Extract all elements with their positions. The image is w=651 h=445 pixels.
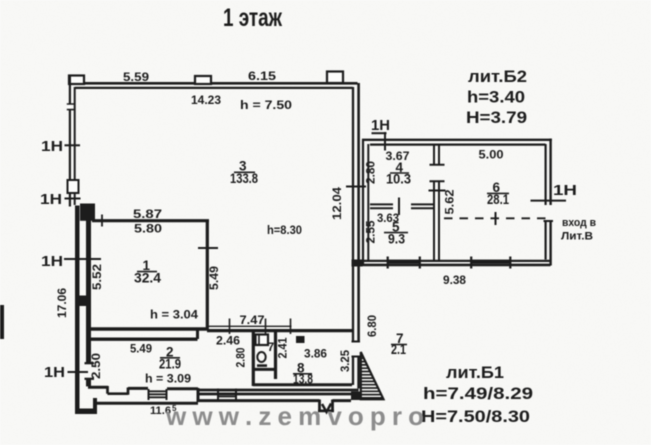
wall: wing bottom room2 floor c [167, 387, 198, 390]
wall: main right outer upper [357, 83, 360, 341]
svg-text:h=8.30: h=8.30 [267, 223, 302, 237]
dim tick c [290, 319, 292, 335]
left foot bottom [75, 409, 97, 415]
wall: annex bottom outer [353, 264, 551, 267]
svg-text:6.15: 6.15 [248, 69, 276, 83]
svg-text:28.1: 28.1 [487, 192, 509, 207]
svg-text:H=7.50/8.30: H=7.50/8.30 [421, 408, 530, 426]
svg-text:32.4: 32.4 [134, 271, 161, 286]
wall: main right inner lower [352, 357, 354, 385]
wall: wing bottom room2 floor b [128, 387, 148, 390]
wall: room8 floor [253, 383, 352, 386]
wall: left upper inner [74, 87, 76, 205]
wall: toilet bottom [253, 368, 276, 371]
svg-text:h=3.40: h=3.40 [467, 89, 525, 107]
svg-text:133.8: 133.8 [230, 171, 258, 186]
svg-text:9.3: 9.3 [388, 232, 405, 247]
fixture: sink [256, 335, 269, 346]
wall: left lower inner below window [86, 378, 91, 386]
dim tick b [265, 319, 267, 335]
svg-text:h = 7.50: h = 7.50 [240, 98, 292, 112]
dashed line room 6 [444, 217, 550, 219]
wall: left lower outer (thick) [75, 206, 80, 412]
wall: left lower inner upper segment [86, 219, 91, 364]
window annex 2 [472, 260, 511, 262]
stairs hatching [361, 355, 383, 398]
tick left wall 1 [65, 144, 81, 146]
svg-text:5.52: 5.52 [90, 264, 104, 290]
wall: annex left inner [367, 144, 369, 260]
stub upper of left-wall window [85, 362, 95, 364]
wall: room1 top [92, 219, 209, 222]
svg-text:h = 3.09: h = 3.09 [145, 372, 191, 386]
wall: toilet left [252, 332, 255, 386]
svg-text:1Н: 1Н [371, 117, 390, 134]
wall: main right inner upper [352, 87, 354, 341]
window annex 1 [388, 260, 420, 262]
svg-text:9.38: 9.38 [443, 273, 466, 287]
svg-text:2.80: 2.80 [364, 161, 378, 184]
wall: annex divider 4/5 bottom line [370, 207, 435, 209]
svg-text:2.41: 2.41 [276, 337, 290, 358]
svg-text:2.1: 2.1 [391, 342, 406, 357]
svg-text:вход в: вход в [562, 217, 596, 229]
wall: room1 bottom [90, 327, 209, 330]
svg-text:H=3.79: H=3.79 [466, 109, 527, 127]
svg-text:5.49: 5.49 [130, 342, 152, 356]
svg-text:5.87: 5.87 [133, 207, 162, 221]
title: 1 этаж [223, 4, 282, 32]
svg-text:w w w . z e m v o p r o: w w w . z e m v o p r o [165, 401, 424, 431]
tick room1 right wall [198, 247, 218, 249]
svg-text:5.80: 5.80 [134, 222, 162, 236]
plus tick on dashed line [495, 212, 497, 225]
svg-text:h = 3.04: h = 3.04 [150, 308, 198, 322]
stub divider 4/5 door [398, 198, 400, 216]
svg-text:10.3: 10.3 [386, 172, 411, 187]
tick 5.87 dim start [101, 215, 103, 227]
tick right wall y131 [372, 132, 387, 134]
wall: toilet right [274, 329, 277, 379]
wall: annex left outer [362, 139, 364, 265]
stub lower of left-wall window [85, 378, 95, 380]
wall: wing bottom notch [108, 386, 129, 395]
wall: annex top inner [370, 144, 546, 146]
tick left wall 2 [65, 198, 81, 200]
wall: wing bottom band top right [198, 389, 359, 392]
junction block right wall base [351, 392, 360, 401]
left foot vertical [93, 398, 97, 411]
svg-text:Лит.В: Лит.В [561, 231, 593, 243]
porch pocket [318, 400, 334, 412]
wall: annex divider 4/6 left line [433, 145, 435, 260]
svg-text:14.23: 14.23 [191, 93, 221, 107]
svg-text:2.46: 2.46 [216, 334, 240, 348]
edge scan mark [0, 305, 4, 339]
svg-text:5.59: 5.59 [123, 70, 149, 84]
stub divider 4/6 door [430, 165, 445, 181]
tick left wall 3 [64, 258, 101, 260]
svg-text:7.47: 7.47 [240, 313, 265, 327]
wall: annex top outer [362, 139, 552, 141]
svg-text:21.9: 21.9 [159, 357, 181, 372]
wall: wing bottom outer left [94, 402, 198, 405]
svg-text:7: 7 [268, 340, 275, 354]
wall: wing bottom room2 floor a [88, 386, 108, 389]
svg-text:2.50: 2.50 [89, 353, 103, 379]
svg-text:17.06: 17.06 [55, 288, 69, 318]
tick annex right wall [531, 200, 567, 202]
tick right wall y186 [346, 186, 366, 188]
fixture: toilet bowl [257, 352, 265, 362]
stub of right-wall door top [352, 341, 361, 343]
window wing 1 [148, 391, 167, 397]
wall: wing bottom outer right [198, 399, 351, 402]
break in left outer wall [68, 104, 72, 109]
wall: room1 right [206, 220, 209, 331]
wall: wing bottom band middle right [198, 393, 359, 396]
wall: main right outer lower [357, 357, 360, 389]
vertical tick annex top wall [384, 132, 386, 151]
pilaster top middle [195, 76, 211, 84]
dimension line 7.47 [207, 325, 292, 327]
svg-text:3.25: 3.25 [338, 350, 352, 372]
box on left wall [68, 180, 79, 193]
wall: main top inner line [75, 87, 353, 89]
svg-text:лит.Б2: лит.Б2 [468, 68, 527, 86]
pilaster top-left corner [69, 76, 84, 85]
window wing 2 [218, 391, 237, 397]
stub of right-wall door bottom [352, 356, 361, 358]
dim tick a [229, 319, 231, 335]
svg-text:3.86: 3.86 [304, 347, 327, 361]
svg-text:2.80: 2.80 [234, 347, 248, 367]
wall: main top outer line [76, 82, 358, 85]
junction box left wall y205 [80, 204, 95, 221]
wall: annex divider 4/6 right line [438, 145, 440, 260]
svg-text:5.49: 5.49 [207, 266, 221, 290]
svg-text:5.00: 5.00 [479, 148, 504, 162]
vent black square [296, 336, 305, 343]
svg-text:13.8: 13.8 [293, 372, 313, 387]
wall: room3 bottom right (corridor top) [207, 329, 353, 332]
wall: room2 top [90, 338, 198, 341]
svg-text:1Н: 1Н [40, 191, 62, 208]
svg-text:1Н: 1Н [41, 138, 63, 155]
tick left wall 4 [68, 371, 89, 373]
wall: wing bottom step x200 [197, 388, 200, 402]
svg-text:12.04: 12.04 [330, 187, 344, 220]
wall: annex bottom inner [353, 260, 551, 262]
pilaster top right [327, 72, 343, 84]
wall: room2 top step connector [196, 330, 199, 339]
stairs triangle [361, 352, 384, 399]
svg-text:5.62: 5.62 [443, 189, 457, 214]
wall: annex right inner [544, 144, 546, 260]
svg-text:1Н: 1Н [553, 182, 577, 199]
wall: annex right outer [549, 139, 551, 266]
svg-text:6.80: 6.80 [365, 315, 379, 337]
wall: annex divider 4/5 top line [370, 203, 435, 205]
junction box left wall y296 [76, 296, 92, 307]
stub annex right door bottom [544, 220, 554, 222]
tick on divider 4/6 [429, 190, 446, 192]
svg-text:1Н: 1Н [44, 364, 65, 381]
svg-text:h=7.49/8.29: h=7.49/8.29 [423, 385, 533, 403]
svg-text:1Н: 1Н [41, 253, 63, 270]
porch V mark [322, 404, 331, 413]
svg-text:лит.Б1: лит.Б1 [446, 364, 504, 382]
svg-text:2.55: 2.55 [364, 220, 378, 243]
wall: left upper outer [69, 76, 71, 207]
svg-text:1 этаж: 1 этаж [223, 4, 282, 32]
